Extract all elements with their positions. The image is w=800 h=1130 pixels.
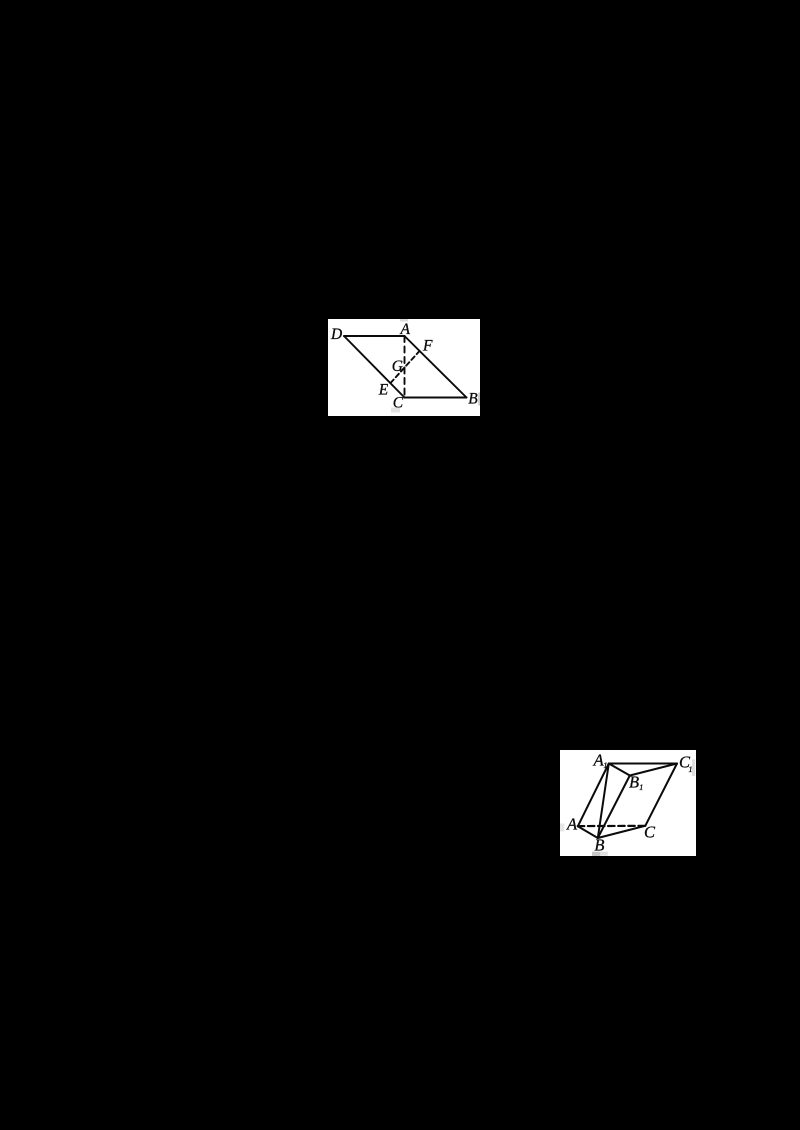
svg-text:B: B: [629, 773, 639, 792]
svg-text:D: D: [330, 326, 342, 343]
svg-text:G: G: [392, 358, 403, 375]
svg-text:1: 1: [603, 761, 607, 770]
wire edge B-C: [598, 826, 646, 838]
wire dashed diagonal A-C: [404, 336, 406, 398]
scan artifact above A: [400, 319, 408, 322]
scan artifact below C: [391, 408, 400, 413]
figure 2: triangular prism ABC-A1B1C1 panel: [560, 750, 696, 856]
figure 1: parallelogram DABC panel: [328, 319, 480, 416]
svg-text:1: 1: [689, 765, 693, 774]
wire dashed segment E-F: [391, 351, 420, 383]
wire edge D-C: [344, 336, 405, 398]
svg-text:1: 1: [639, 783, 643, 792]
scan artifact left of A: [560, 824, 564, 832]
wire edge D-A: [344, 335, 405, 337]
svg-text:C: C: [644, 823, 656, 842]
wire edge A1-A: [578, 764, 609, 827]
scan artifact right of C1: [692, 760, 695, 777]
wire edge A-B: [578, 826, 598, 838]
wire edge B1-B: [598, 776, 630, 839]
svg-text:A: A: [400, 321, 411, 338]
wire edge A1-B: [598, 764, 609, 839]
wire dashed hidden edge A-C: [578, 825, 646, 827]
wire edge A1-B1: [609, 764, 630, 776]
wire edge A1-C1: [609, 763, 677, 765]
wire edge C-B: [405, 397, 467, 399]
wire edge A-B: [405, 336, 467, 398]
svg-text:F: F: [422, 338, 433, 355]
svg-text:E: E: [378, 381, 389, 398]
svg-text:B: B: [468, 391, 478, 408]
scan artifact below B: [592, 852, 600, 856]
wire edge C1-C: [645, 764, 677, 826]
svg-text:B: B: [594, 836, 604, 855]
wire edge B1-C1: [630, 764, 677, 776]
scan artifact right of B artifact: [600, 852, 608, 856]
svg-text:A: A: [566, 815, 578, 834]
scan artifact bar right of B: [478, 393, 480, 406]
